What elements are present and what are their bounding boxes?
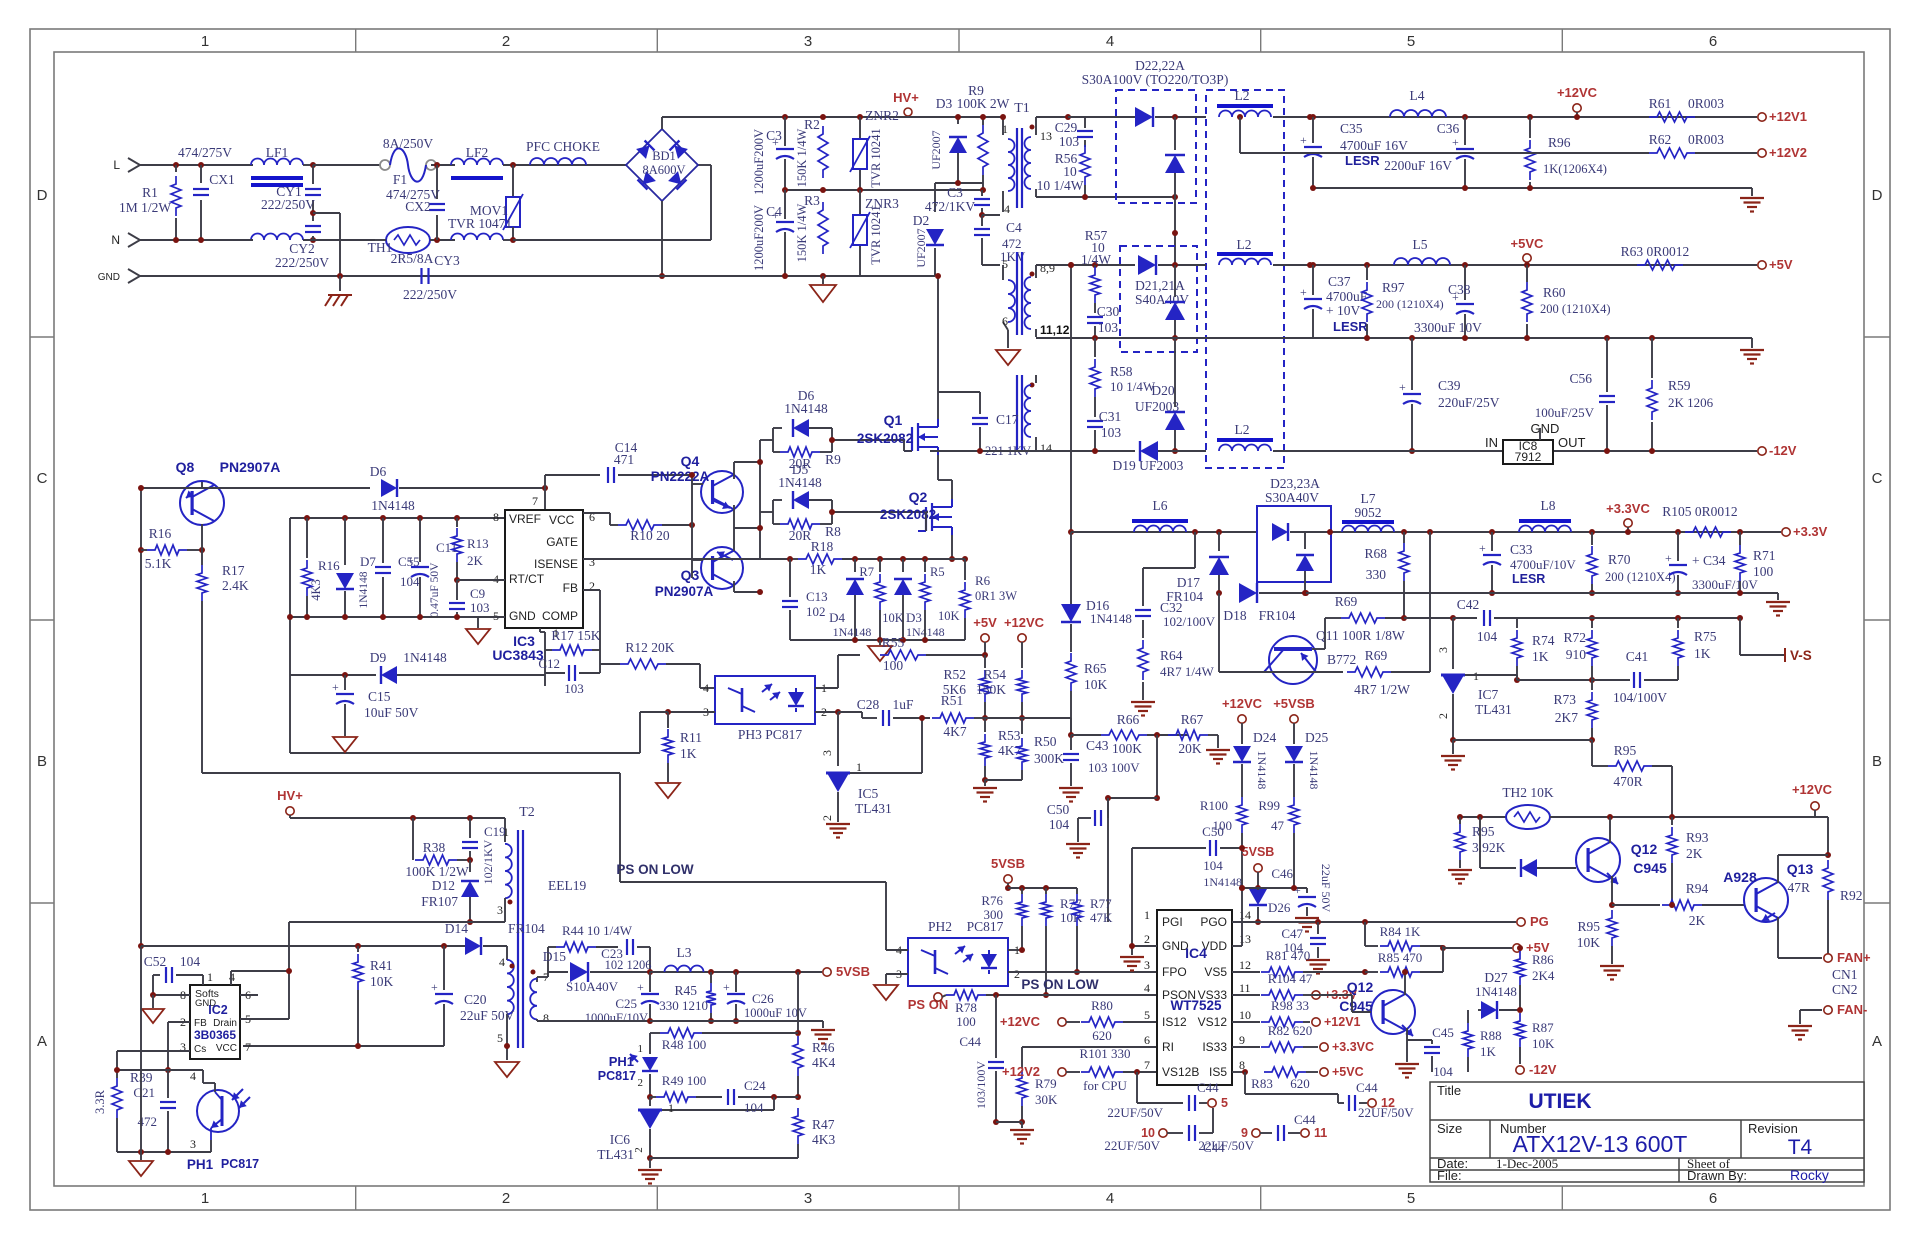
5vsb psn rail — [1008, 887, 1077, 889]
svg-text:2K: 2K — [1686, 846, 1703, 861]
svg-text:IC2: IC2 — [208, 1003, 228, 1017]
svg-text:PG: PG — [1530, 914, 1549, 929]
capacitor C28 1uF — [882, 710, 884, 726]
resistor R75 1K — [1677, 618, 1679, 628]
svg-text:1200uF200V: 1200uF200V — [752, 205, 766, 271]
svg-text:D17: D17 — [1177, 575, 1200, 590]
resistor R62 0R003 — [1649, 148, 1695, 158]
svg-text:47K: 47K — [1090, 910, 1113, 925]
svg-text:TH1: TH1 — [368, 240, 393, 255]
wire fb to R66 — [985, 717, 1071, 719]
svg-text:R68: R68 — [1364, 546, 1387, 561]
svg-text:3: 3 — [190, 1137, 196, 1151]
svg-text:220uF/25V: 220uF/25V — [1438, 395, 1500, 410]
resistor R59 — [1649, 335, 1655, 341]
svg-text:10K: 10K — [1084, 677, 1108, 692]
capacitor C23 102 1206 — [626, 939, 628, 955]
svg-text:10 1/4W: 10 1/4W — [1037, 178, 1084, 193]
node rail 183 — [935, 182, 983, 184]
svg-text:9052: 9052 — [1355, 505, 1382, 520]
svg-text:UTIEK: UTIEK — [1529, 1090, 1592, 1113]
diode D25 — [1285, 746, 1303, 762]
svg-text:7912: 7912 — [1515, 450, 1542, 464]
svg-text:+: + — [431, 980, 438, 994]
resistor R77b 47K — [1076, 888, 1078, 894]
wire VDD riser — [1232, 945, 1242, 947]
svg-text:BD1: BD1 — [652, 149, 676, 163]
resistor R65 10K — [1066, 653, 1076, 691]
snubber R58 — [1094, 338, 1096, 357]
resistor R93 2K — [1671, 817, 1673, 825]
svg-text:R52: R52 — [943, 667, 966, 682]
long wire PSON from R17 — [202, 772, 620, 774]
svg-text:2K4: 2K4 — [1532, 968, 1555, 983]
svg-text:4: 4 — [493, 572, 499, 586]
svg-text:R51: R51 — [941, 693, 964, 708]
svg-text:PH3 PC817: PH3 PC817 — [738, 727, 802, 742]
svg-text:R58: R58 — [1110, 364, 1133, 379]
svg-text:C: C — [1872, 470, 1883, 487]
svg-text:R48 100: R48 100 — [662, 1037, 706, 1052]
svg-text:PH1: PH1 — [187, 1157, 214, 1172]
wire BD1 bottom — [661, 201, 663, 276]
svg-text:D18: D18 — [1223, 608, 1246, 623]
svg-text:S40A40V: S40A40V — [1135, 292, 1189, 307]
node LF2-MOV1 top — [510, 162, 516, 168]
IC2 Cs wire — [117, 1050, 190, 1052]
svg-text:+: + — [1665, 551, 1672, 565]
svg-text:R17: R17 — [222, 563, 245, 578]
svg-text:C44: C44 — [1294, 1112, 1316, 1127]
svg-text:R78: R78 — [955, 1000, 977, 1015]
svg-text:COMP: COMP — [542, 609, 578, 623]
svg-text:330 1210: 330 1210 — [659, 998, 708, 1013]
svg-text:D24: D24 — [1253, 730, 1276, 745]
node gnd-340 — [337, 273, 343, 279]
svg-text:47R: 47R — [1787, 880, 1810, 895]
svg-text:Q12: Q12 — [1347, 979, 1374, 995]
svg-text:2: 2 — [820, 815, 834, 821]
svg-text:C44: C44 — [1197, 1080, 1219, 1095]
svg-text:1: 1 — [856, 760, 862, 774]
ground R67 — [1217, 735, 1219, 748]
T1 pin5 wire — [982, 264, 1000, 266]
svg-text:R95: R95 — [1472, 824, 1495, 839]
svg-text:D7: D7 — [360, 554, 376, 569]
resistor R94 2K — [1612, 904, 1660, 906]
svg-text:1K: 1K — [1480, 1044, 1497, 1059]
rail 740 — [1453, 739, 1592, 741]
resistor R16 5.1K — [147, 545, 187, 555]
collector Q3 — [733, 581, 735, 592]
diode D15 S10A40V — [548, 971, 568, 973]
svg-text:5VSB: 5VSB — [1242, 845, 1275, 859]
svg-text:5: 5 — [1407, 33, 1415, 50]
common-mode choke LF2 — [451, 159, 503, 165]
svg-text:1: 1 — [201, 33, 209, 50]
svg-text:VS12: VS12 — [1198, 1015, 1228, 1029]
svg-text:R83: R83 — [1251, 1076, 1273, 1091]
svg-text:S30A100V (TO220/TO3P): S30A100V (TO220/TO3P) — [1082, 72, 1229, 87]
svg-text:TVR 10241: TVR 10241 — [869, 128, 883, 187]
svg-text:+12V1: +12V1 — [1769, 109, 1807, 124]
svg-text:10K: 10K — [1532, 1036, 1555, 1051]
node FB divider — [117, 1069, 203, 1071]
wire D22 junction down — [1174, 197, 1176, 265]
svg-text:C13: C13 — [806, 589, 828, 604]
transistor Q8 PN2907A — [180, 481, 224, 525]
svg-text:D6: D6 — [370, 464, 387, 479]
IC5 fb loop — [850, 772, 922, 774]
svg-text:620: 620 — [1092, 1028, 1112, 1043]
svg-text:4700uF/10V: 4700uF/10V — [1510, 557, 1576, 572]
svg-text:R1: R1 — [142, 185, 158, 200]
opto PH1 phototransistor — [202, 1070, 204, 1083]
svg-text:PH2: PH2 — [928, 919, 952, 934]
svg-text:4: 4 — [1144, 981, 1150, 995]
svg-text:D15: D15 — [543, 949, 566, 964]
svg-text:C47: C47 — [1281, 926, 1303, 941]
capacitor C50b 104 — [1132, 847, 1206, 849]
PH2 pin1 wire — [1008, 949, 1022, 951]
PFC choke — [530, 158, 586, 165]
svg-text:30K: 30K — [1035, 1092, 1058, 1107]
capacitor C44c 22UF/50V — [1348, 1095, 1350, 1111]
svg-text:R16: R16 — [318, 558, 340, 573]
resistor R97 — [1364, 262, 1370, 268]
svg-text:200 (1210X4): 200 (1210X4) — [1605, 570, 1675, 584]
svg-text:5VSB: 5VSB — [991, 856, 1025, 871]
svg-text:+: + — [637, 980, 644, 994]
svg-text:8A/250V: 8A/250V — [383, 136, 434, 151]
svg-text:22UF/50V: 22UF/50V — [1104, 1138, 1160, 1153]
svg-text:for CPU: for CPU — [1083, 1078, 1127, 1093]
capacitor C44b 22UF/50V — [1188, 1125, 1190, 1141]
svg-text:5: 5 — [1144, 1008, 1150, 1022]
svg-text:LESR: LESR — [1512, 572, 1545, 586]
svg-text:2: 2 — [502, 1190, 510, 1207]
svg-text:CX1: CX1 — [209, 172, 235, 187]
-12V terminal — [1758, 447, 1766, 455]
svg-text:222/250V: 222/250V — [275, 255, 329, 270]
svg-text:C20: C20 — [464, 992, 487, 1007]
svg-text:1K: 1K — [1694, 646, 1711, 661]
svg-text:104: 104 — [1203, 858, 1223, 873]
svg-text:C36: C36 — [1437, 121, 1460, 136]
svg-text:104: 104 — [1433, 1064, 1453, 1079]
ground R11 — [656, 783, 680, 798]
ground Q12a — [1395, 1063, 1419, 1065]
svg-text:+: + — [407, 553, 414, 567]
resistor R45 330 1210 — [710, 972, 712, 983]
zener diode fan — [1479, 817, 1481, 868]
svg-text:11: 11 — [1314, 1126, 1327, 1140]
svg-text:Q1: Q1 — [884, 412, 903, 428]
rail 888 — [1242, 887, 1307, 889]
diode D12 FR107 — [469, 860, 471, 872]
capacitor C35 — [1310, 114, 1316, 120]
resistor R12 20K — [620, 659, 666, 669]
svg-text:2K 1206: 2K 1206 — [1668, 395, 1714, 410]
svg-text:103: 103 — [1098, 320, 1119, 335]
svg-text:C29: C29 — [1055, 120, 1078, 135]
svg-text:R7: R7 — [859, 565, 874, 579]
resistor R84 1K — [1364, 922, 1366, 946]
diode D17 — [1218, 532, 1220, 551]
svg-text:1: 1 — [503, 825, 509, 839]
resistor R74 1K — [1516, 618, 1518, 628]
svg-text:B772: B772 — [1327, 652, 1356, 667]
+12V2 terminal — [1758, 149, 1766, 157]
svg-text:+12VC: +12VC — [1557, 85, 1598, 100]
ground 5V bus — [1751, 338, 1753, 348]
svg-text:C4: C4 — [1006, 220, 1022, 235]
svg-text:+ C34: + C34 — [1692, 553, 1726, 568]
svg-text:R13: R13 — [467, 536, 489, 551]
common-mode choke LF1 — [251, 159, 303, 165]
varistor MOV1 — [512, 165, 514, 197]
diode D7 — [344, 518, 346, 565]
capacitor C34 — [1675, 529, 1681, 535]
node C3 top — [782, 114, 788, 120]
svg-text:D14: D14 — [445, 921, 468, 936]
svg-text:R5: R5 — [930, 565, 945, 579]
+5V terminal — [1758, 261, 1766, 269]
svg-text:C21: C21 — [133, 1085, 155, 1100]
svg-text:R49 100: R49 100 — [662, 1073, 706, 1088]
svg-text:EEL19: EEL19 — [548, 878, 586, 893]
svg-text:VCC: VCC — [216, 1043, 237, 1054]
capacitor CY1 — [310, 162, 316, 168]
wire F1 to LF2 — [431, 164, 455, 166]
TL431 IC6 — [649, 1097, 651, 1106]
resistor R101 330 — [1081, 1067, 1123, 1077]
diode D27 1N4148 — [1481, 1001, 1497, 1019]
rectifier box D23 — [1257, 506, 1331, 582]
svg-text:1: 1 — [1473, 669, 1479, 683]
svg-text:4R7 1/2W: 4R7 1/2W — [1354, 682, 1410, 697]
svg-text:FR107: FR107 — [421, 894, 458, 909]
wire sense run down — [1156, 735, 1158, 798]
svg-text:C24: C24 — [744, 1078, 766, 1093]
svg-text:GND: GND — [98, 272, 120, 283]
svg-text:-12V: -12V — [1529, 1062, 1557, 1077]
resistor R9 primary 100K 2W — [978, 125, 988, 175]
svg-text:V-S: V-S — [1790, 648, 1812, 663]
resistor R11 1K — [667, 712, 669, 728]
resistor R86 2K4 — [1519, 948, 1521, 950]
resistor R63 0R0012 — [1637, 260, 1683, 270]
svg-text:D3: D3 — [906, 610, 922, 625]
svg-text:L7: L7 — [1361, 491, 1376, 506]
svg-text:FR104: FR104 — [508, 921, 545, 936]
PH1 pin3 wire — [210, 1140, 212, 1152]
capacitor CY3 — [420, 268, 422, 284]
svg-text:0.47uF 50V: 0.47uF 50V — [429, 562, 441, 618]
capacitor C3 bulk — [784, 117, 786, 146]
svg-text:1: 1 — [638, 1043, 644, 1055]
svg-text:4: 4 — [190, 1069, 196, 1083]
svg-text:FR104: FR104 — [1166, 589, 1203, 604]
snubber C31 — [1094, 397, 1096, 417]
capacitor C4 bulk — [784, 190, 786, 219]
resistor R6 0R1 3W — [962, 556, 968, 562]
wire 3.3V feed — [1070, 265, 1072, 532]
svg-text:Revision: Revision — [1748, 1121, 1798, 1136]
resistor R80 620 — [1081, 1017, 1123, 1027]
svg-text:1N4148: 1N4148 — [1203, 875, 1242, 889]
svg-text:100: 100 — [883, 658, 904, 673]
svg-text:WT7525: WT7525 — [1170, 998, 1222, 1013]
svg-text:4700uF 16V: 4700uF 16V — [1340, 138, 1408, 153]
svg-text:IS5: IS5 — [1209, 1065, 1227, 1079]
svg-text:C4: C4 — [766, 204, 782, 219]
IC2 FB wire — [168, 1021, 190, 1023]
svg-text:PFC CHOKE: PFC CHOKE — [526, 139, 600, 154]
rail 8-9 — [1036, 264, 1135, 266]
IC2 pin4 riser — [230, 971, 232, 985]
gnd bus 12V — [1313, 187, 1752, 189]
svg-text:1N4148: 1N4148 — [371, 498, 415, 513]
snubber C29 — [1065, 114, 1071, 120]
svg-text:CN2: CN2 — [1832, 982, 1858, 997]
capacitor C46 22uF 50V — [1306, 888, 1308, 893]
svg-text:1: 1 — [207, 970, 213, 984]
+12V2 branch — [1239, 117, 1241, 153]
diode D26 1N4148 — [1249, 889, 1267, 905]
resistor R39 3.3R — [112, 1078, 122, 1118]
svg-text:ISENSE: ISENSE — [534, 557, 578, 571]
svg-text:+: + — [1294, 883, 1301, 897]
wire BD1 top to HV rail — [661, 117, 663, 129]
svg-text:5: 5 — [1221, 1096, 1228, 1110]
svg-text:R100: R100 — [1200, 798, 1228, 813]
ground 12V — [1751, 188, 1753, 196]
ground 3.3V — [1777, 593, 1779, 600]
svg-text:100K 1/2W: 100K 1/2W — [405, 864, 469, 879]
capacitor C25 1000uF/10V — [649, 972, 651, 992]
node L6 out — [1192, 529, 1198, 535]
svg-text:6: 6 — [1709, 1190, 1717, 1207]
svg-text:10: 10 — [1239, 1008, 1251, 1022]
svg-text:C45: C45 — [1432, 1025, 1454, 1040]
svg-text:4K4: 4K4 — [812, 1055, 835, 1070]
svg-text:104: 104 — [180, 954, 201, 969]
svg-text:C15: C15 — [368, 689, 391, 704]
svg-text:C3: C3 — [947, 185, 963, 200]
IC6 gnd rail — [650, 1157, 798, 1159]
capacitor C14 471 — [545, 474, 600, 476]
ground R64 — [1131, 701, 1155, 703]
svg-text:R99: R99 — [1258, 798, 1280, 813]
resistor R1 — [175, 165, 177, 172]
node bus C37 — [1364, 335, 1370, 341]
resistor R46 4K4 — [797, 972, 799, 1033]
resistor R76 300 — [1021, 888, 1023, 894]
svg-text:D2: D2 — [913, 213, 930, 228]
resistor R48 100 — [650, 1032, 660, 1034]
svg-text:4: 4 — [229, 970, 235, 984]
svg-text:1N4148: 1N4148 — [1307, 751, 1321, 790]
svg-text:PN2907A: PN2907A — [220, 459, 281, 475]
IC2 pin6 stub — [240, 994, 258, 996]
svg-text:C33: C33 — [1510, 542, 1533, 557]
IC3 top rail — [290, 517, 505, 519]
svg-text:R96: R96 — [1548, 135, 1571, 150]
svg-text:S30A40V: S30A40V — [1265, 490, 1319, 505]
svg-text:R93: R93 — [1686, 830, 1709, 845]
resistor R9 20R — [780, 447, 820, 457]
svg-text:C26: C26 — [752, 991, 774, 1006]
svg-text:A: A — [1872, 1033, 1882, 1050]
resistor R44 10 1/4W — [556, 942, 596, 952]
svg-text:R65: R65 — [1084, 661, 1107, 676]
svg-text:1K(1206X4): 1K(1206X4) — [1543, 162, 1607, 176]
ground standby — [140, 1152, 142, 1160]
svg-text:GATE: GATE — [546, 535, 578, 549]
svg-text:LF2: LF2 — [466, 145, 489, 160]
diode D3b — [900, 556, 906, 562]
capacitor CX1 — [200, 165, 202, 183]
svg-text:20K: 20K — [1178, 741, 1202, 756]
svg-text:Q3: Q3 — [681, 567, 700, 583]
transistor Q3 PN2907A — [701, 547, 743, 589]
primary ground — [822, 276, 824, 284]
svg-text:R77: R77 — [1090, 896, 1112, 911]
base rail Q4 Q3 — [691, 475, 693, 578]
wire RT/CT — [457, 579, 505, 581]
svg-text:3.92K: 3.92K — [1472, 840, 1506, 855]
wire IS5 cap branch — [1244, 1072, 1246, 1094]
diode box D22 — [1116, 90, 1196, 203]
resistor R5 10K — [922, 556, 928, 562]
Q12a collector — [1404, 972, 1406, 995]
svg-text:C12: C12 — [538, 656, 560, 671]
L2 dashed box — [1206, 90, 1284, 468]
Q1 source to Q2 drain — [937, 455, 939, 480]
capacitor C55 104 — [382, 518, 384, 563]
svg-text:22UF/50V: 22UF/50V — [1107, 1105, 1163, 1120]
svg-text:+5VC: +5VC — [1511, 236, 1544, 251]
svg-text:14: 14 — [1239, 908, 1251, 922]
wire LF1 to F1 — [303, 239, 375, 241]
svg-text:R76: R76 — [981, 893, 1003, 908]
svg-text:D26: D26 — [1268, 900, 1291, 915]
node L7 out — [1327, 529, 1333, 535]
svg-text:10uF 50V: 10uF 50V — [364, 705, 419, 720]
capacitor C45 104 — [1407, 1039, 1432, 1041]
svg-text:CN1: CN1 — [1832, 967, 1858, 982]
svg-text:8: 8 — [493, 510, 499, 524]
resistor R71 — [1739, 532, 1741, 545]
svg-text:100K 2W: 100K 2W — [957, 96, 1010, 111]
wire MOV1 to bridge — [513, 239, 711, 241]
svg-text:3: 3 — [497, 903, 503, 917]
svg-text:102 1206: 102 1206 — [605, 958, 652, 972]
svg-text:100uF/25V: 100uF/25V — [1535, 405, 1595, 420]
svg-text:3B0365: 3B0365 — [194, 1028, 236, 1042]
wire 12V rail — [1310, 116, 1757, 118]
svg-text:R12 20K: R12 20K — [625, 640, 674, 655]
+3.3V terminal — [1782, 528, 1790, 536]
node neg rail to D2 — [934, 273, 936, 276]
diode D3 primary — [957, 117, 959, 124]
svg-text:D25: D25 — [1305, 730, 1328, 745]
node CY mid to ground wire — [310, 210, 316, 216]
capacitor C17 221 1KV — [979, 392, 981, 414]
svg-text:222/250V: 222/250V — [403, 287, 457, 302]
svg-text:Rocky: Rocky — [1790, 1167, 1829, 1183]
